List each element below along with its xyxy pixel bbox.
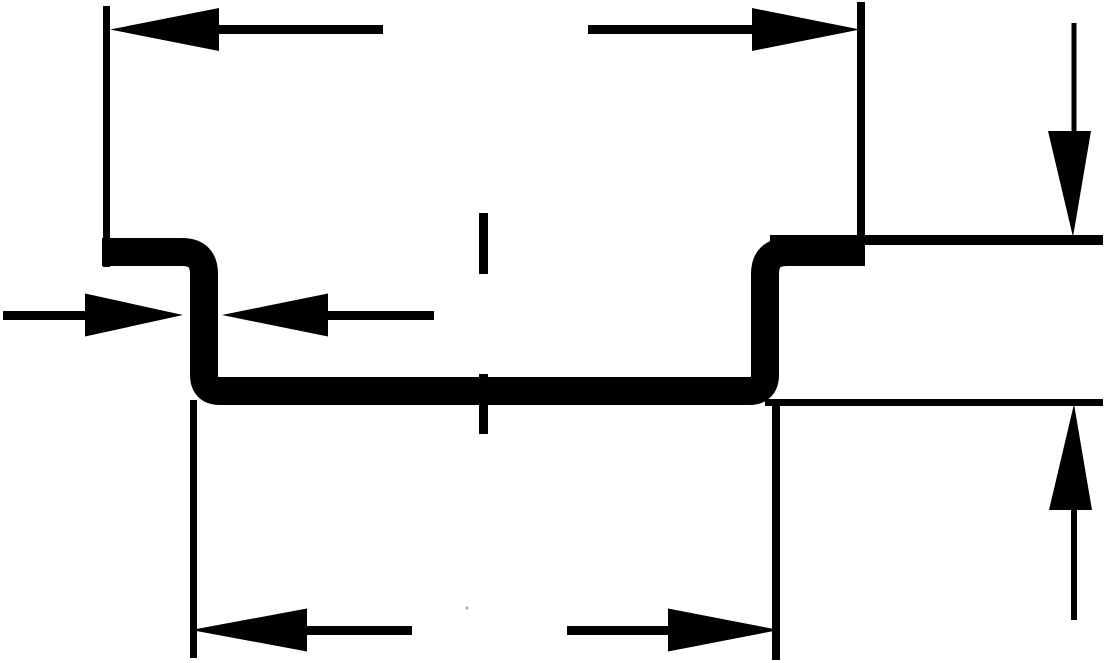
centerline tick upper xyxy=(479,213,488,274)
arrowhead bottom-right (points right) xyxy=(668,609,779,652)
extension line bottom-left xyxy=(190,400,197,658)
extension line top-left xyxy=(103,6,110,267)
extension line top-right xyxy=(857,2,865,266)
arrowhead thickness left (points right) xyxy=(85,294,183,337)
centerline tick lower xyxy=(479,374,488,434)
reference line at flange top level xyxy=(770,235,1103,245)
arrowhead top-left (points left) xyxy=(110,8,219,51)
bottom dimension line right segment xyxy=(567,626,668,635)
extension line bottom-right xyxy=(772,400,780,660)
arrowhead bottom-left (points left) xyxy=(191,609,307,652)
rail profile (hat channel cross-section) xyxy=(102,252,865,391)
top dimension line right segment xyxy=(588,25,757,34)
reference line at rail bottom level xyxy=(765,399,1103,406)
bottom dimension line left segment xyxy=(300,626,412,635)
top dimension line left segment xyxy=(214,25,383,34)
arrowhead lower-right (points up) xyxy=(1049,404,1092,510)
arrowhead thickness right (points left) xyxy=(222,294,328,337)
arrowhead top-right (points right) xyxy=(752,8,860,51)
right height dimension stem xyxy=(1072,23,1077,131)
thickness dimension line left segment xyxy=(3,311,85,320)
speck artifact xyxy=(466,607,469,610)
arrowhead right (points down) xyxy=(1048,131,1091,237)
lower-right dimension stem xyxy=(1071,510,1077,620)
thickness dimension line right segment xyxy=(328,311,434,320)
